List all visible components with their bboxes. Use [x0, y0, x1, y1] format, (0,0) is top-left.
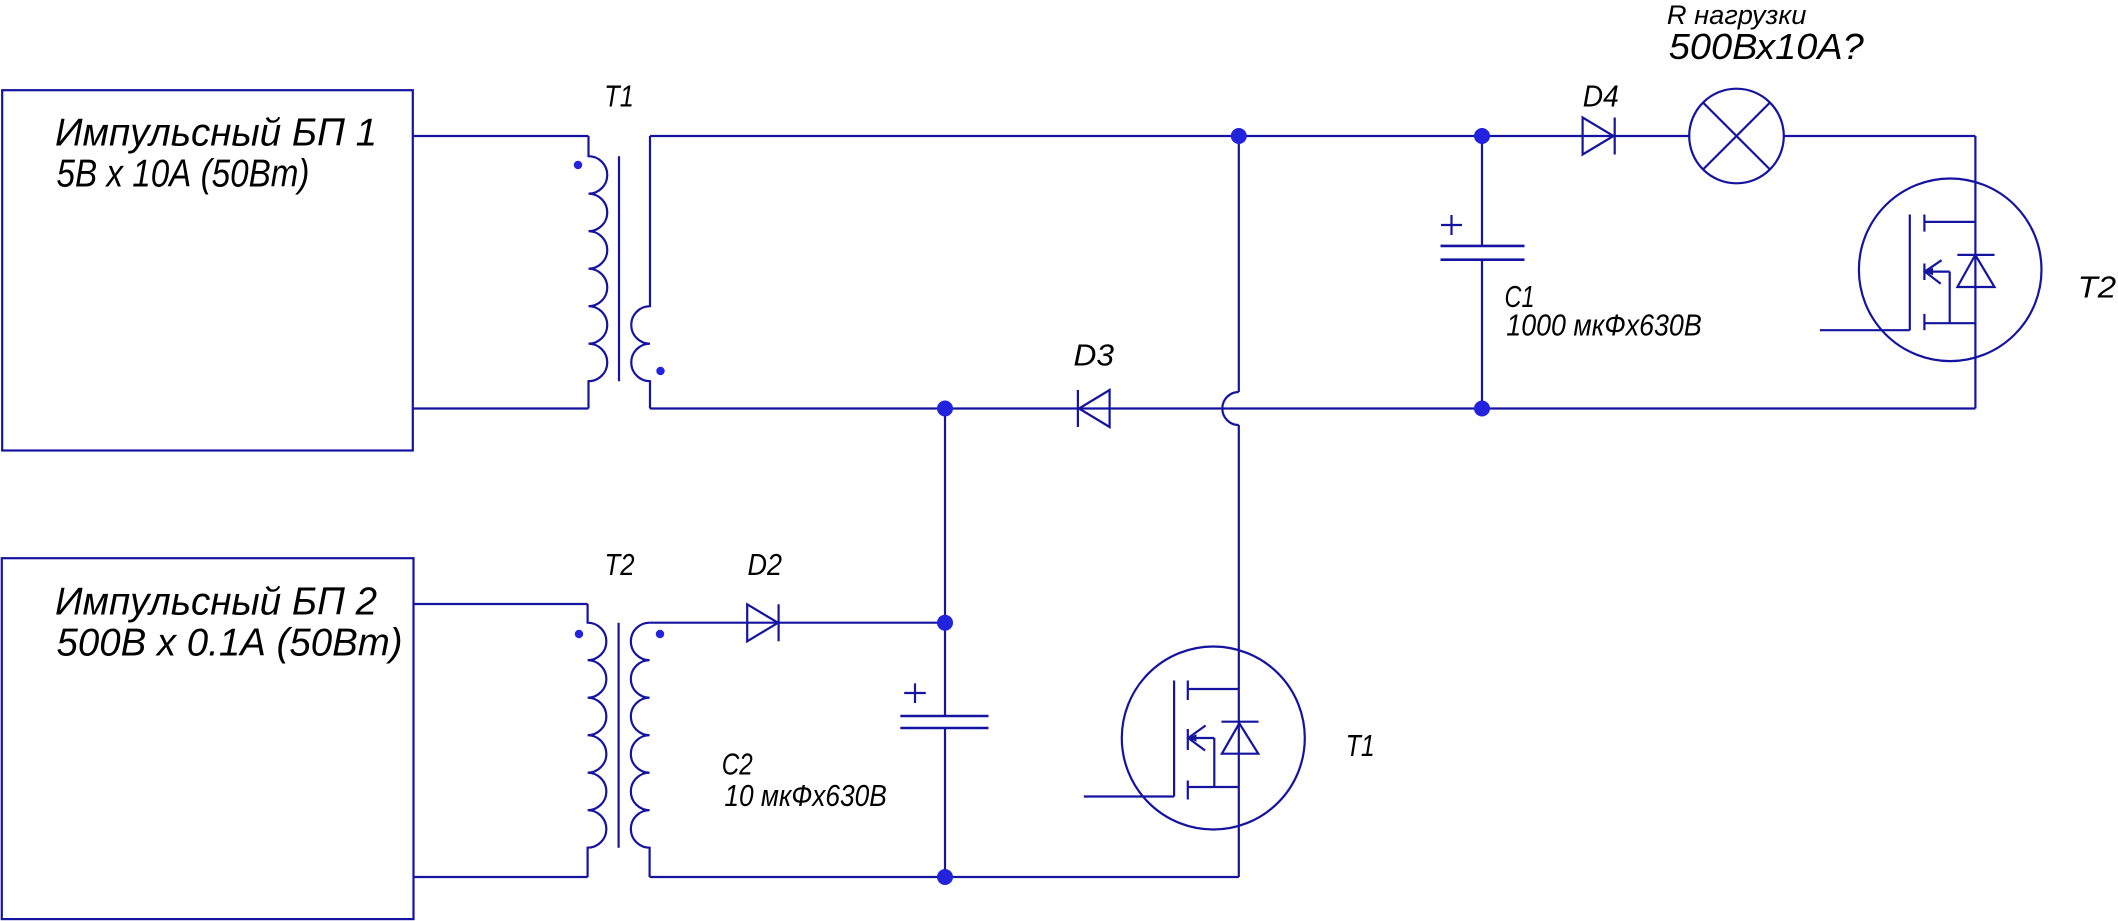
transformer T2 secondary winding — [631, 623, 650, 877]
transformer T2 label — [605, 547, 635, 582]
mosfet T1 — [1084, 647, 1305, 830]
transformer T1 primary winding — [589, 136, 608, 409]
capacitor C2 — [900, 683, 988, 728]
transformer T2 primary polarity dot — [575, 630, 583, 638]
power supply box 2 — [2, 558, 414, 919]
wire box2 bottom to T2 — [414, 876, 588, 878]
svg-text:D3: D3 — [1074, 337, 1115, 372]
wire lamp to right corner — [1784, 135, 1975, 137]
transformer T2 secondary polarity dot — [656, 630, 664, 638]
transformer T2 core — [617, 623, 619, 848]
svg-text:500В х 0.1А (50Вт): 500В х 0.1А (50Вт) — [57, 622, 403, 665]
diode D2 — [747, 604, 778, 641]
lamp R load — [1689, 89, 1784, 184]
bottom wire — [650, 876, 1239, 878]
svg-text:10 мкФх630В: 10 мкФх630В — [724, 778, 886, 813]
transformer T1 label — [604, 78, 634, 113]
wire right vertical — [1974, 136, 1976, 409]
node top wire / T1 drain — [1231, 128, 1247, 144]
node bottom wire / C2 — [937, 869, 953, 885]
svg-text:T2: T2 — [2078, 270, 2117, 305]
capacitor C2 label — [722, 746, 887, 813]
wire C2 branch upper — [944, 409, 946, 717]
svg-text:Импульсный БП 1: Импульсный БП 1 — [55, 111, 377, 154]
wire jump-over arc — [1222, 392, 1238, 425]
diode D2 label — [748, 547, 783, 582]
svg-text:T1: T1 — [1346, 728, 1375, 763]
svg-text:T2: T2 — [605, 547, 635, 582]
svg-text:C2: C2 — [722, 746, 753, 781]
svg-text:T1: T1 — [604, 78, 634, 113]
diode D3 — [1078, 390, 1110, 427]
wire box1 bottom to T1 — [413, 407, 589, 409]
mosfet T2 label — [2078, 270, 2117, 305]
node mid wire / C1 — [1474, 401, 1490, 417]
wire C1 lower — [1481, 260, 1483, 409]
node top wire / C1 — [1474, 128, 1490, 144]
wire T2 secondary to D2 to node — [650, 622, 945, 624]
svg-text:D2: D2 — [748, 547, 783, 582]
transformer T2 primary winding — [588, 604, 607, 877]
middle wire — [650, 407, 1975, 409]
wire box2 top to T2 — [414, 603, 588, 605]
diode D4 — [1583, 118, 1615, 155]
mosfet T1 label — [1346, 728, 1375, 763]
wire box1 top to T1 — [413, 135, 589, 137]
svg-text:Импульсный БП 2: Импульсный БП 2 — [55, 581, 377, 624]
mosfet T2 — [1820, 178, 2042, 361]
svg-text:1000 мкФх630В: 1000 мкФх630В — [1506, 307, 1701, 342]
svg-text:D4: D4 — [1583, 78, 1619, 113]
diode D4 label — [1583, 78, 1619, 113]
power supply box 1 — [2, 90, 413, 450]
transformer T1 secondary winding — [631, 136, 650, 409]
node mid wire / C2 branch — [937, 401, 953, 417]
wire C1 upper — [1481, 136, 1483, 246]
transformer T1 secondary polarity dot — [656, 367, 664, 375]
wire C2 branch lower — [944, 728, 946, 877]
diode D3 label — [1074, 337, 1115, 372]
transformer T1 primary polarity dot — [574, 161, 582, 169]
wire drain drop T1 — [1238, 136, 1240, 392]
top wire — [650, 135, 1689, 137]
svg-text:5В х 10А (50Вт): 5В х 10А (50Вт) — [57, 153, 310, 196]
lamp label — [1667, 0, 1864, 67]
transformer T1 core — [618, 156, 620, 381]
capacitor C1 — [1441, 215, 1525, 260]
capacitor C1 label — [1505, 279, 1702, 342]
node D2 / C2 — [937, 615, 953, 631]
wire T1 mosfet to bottom — [1238, 425, 1240, 877]
svg-text:500Вх10А?: 500Вх10А? — [1669, 26, 1864, 67]
